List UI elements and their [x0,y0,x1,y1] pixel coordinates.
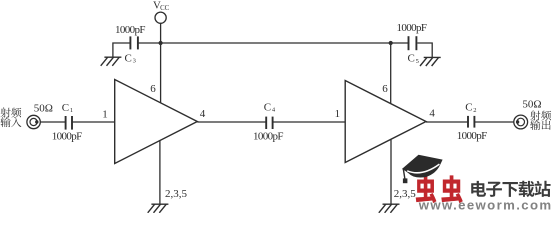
svg-text:1: 1 [102,109,108,121]
supply rail wire [137,42,409,44]
svg-text:C: C [125,52,132,64]
capacitor C1 [65,116,67,130]
wire J1 to C1 [40,121,65,123]
wire C5 to ground [417,43,432,57]
ground for amp1 [151,203,168,205]
watermark text chongchong (red) [416,175,437,203]
ground for amp2 [383,203,400,205]
Vcc terminal circle [155,12,166,23]
svg-text:6: 6 [382,83,388,95]
op-amp U1 (MMIC amplifier) [115,80,198,164]
svg-text:1: 1 [335,108,341,120]
wire C2 to output connector [474,121,514,123]
output connector J2 [514,115,528,129]
svg-text:50Ω: 50Ω [34,103,53,115]
svg-text:2: 2 [473,107,476,114]
svg-text:1000pF: 1000pF [397,22,428,34]
wire rail to amp1 pin 6 [160,43,162,103]
svg-text:6: 6 [150,83,156,95]
capacitor C4 coupling [265,117,267,129]
node junction at Vcc [159,41,163,45]
input connector J1 [27,115,40,128]
svg-text:1000pF: 1000pF [457,130,488,142]
svg-text:C: C [62,102,69,114]
wire amp1 out to C4 [197,121,266,123]
wire amp1 pins 2,3,5 to ground [159,140,161,204]
node junction amp2 supply [389,41,393,45]
svg-text:4: 4 [200,108,206,120]
op-amp U2 (MMIC amplifier) [345,81,426,163]
svg-text:2,3,5: 2,3,5 [394,188,417,200]
label RF output (shepin shuchu) [530,111,540,121]
capacitor C5 bypass [408,36,410,50]
label RF input (shepin shuru) [1,108,11,118]
wire C1 to amp1 pin1 [72,121,115,123]
svg-text:5: 5 [416,58,419,65]
svg-text:4: 4 [429,107,435,119]
watermark text dianzi xiazai zhan [471,181,486,197]
svg-text:C: C [408,53,415,65]
svg-text:3: 3 [133,58,136,65]
wire C4 to amp2 pin1 [273,121,345,123]
svg-text:1000pF: 1000pF [52,131,83,143]
svg-text:C: C [465,102,472,114]
wire amp2 pins 2,3,5 to ground [390,140,392,204]
svg-text:2,3,5: 2,3,5 [165,188,188,200]
capacitor C3 bypass [129,36,131,49]
svg-text:www.eeworm.com: www.eeworm.com [418,197,551,212]
svg-text:1000pF: 1000pF [253,130,284,142]
capacitor C2 [467,116,469,128]
ground for C3 [104,56,121,58]
watermark graduation cap icon [402,155,443,183]
wire amp2 out to C2 [426,121,468,123]
svg-text:1: 1 [70,107,73,114]
ground for C5 [424,56,441,58]
wire C3 to ground [113,43,130,57]
svg-text:50Ω: 50Ω [522,99,541,111]
wire rail to amp2 pin 6 [390,43,392,104]
svg-text:1000pF: 1000pF [115,24,146,36]
svg-text:C: C [264,101,271,113]
wire Vcc to rail [160,23,162,43]
svg-text:CC: CC [160,5,170,12]
